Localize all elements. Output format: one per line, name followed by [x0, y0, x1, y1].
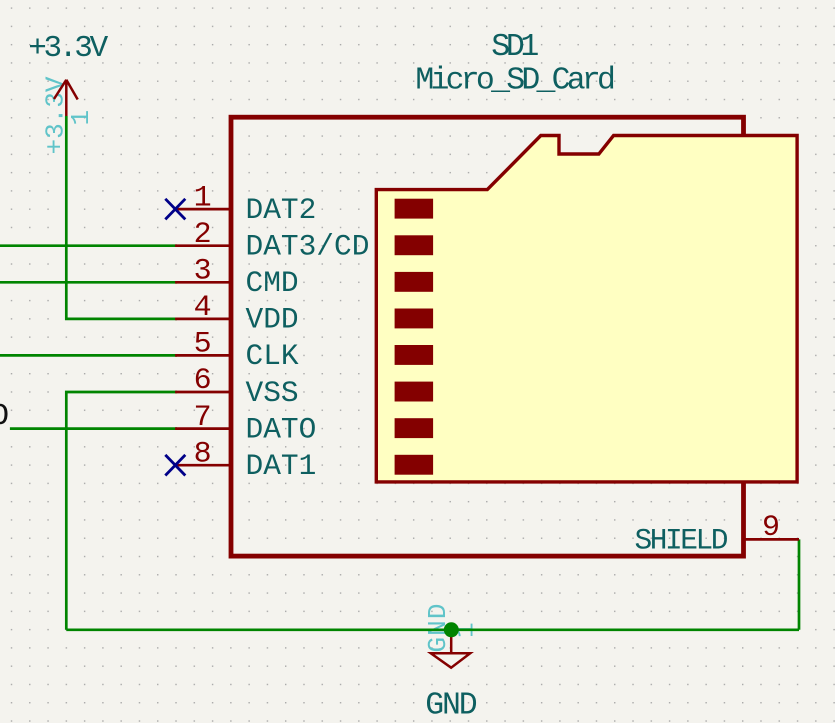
svg-text:SD1: SD1: [491, 30, 539, 65]
svg-text:8: 8: [194, 437, 212, 471]
svg-text:SHIELD: SHIELD: [635, 523, 729, 557]
svg-text:DATO: DATO: [246, 412, 317, 446]
svg-text:1: 1: [66, 110, 96, 126]
svg-text:Micro_SD_Card: Micro_SD_Card: [415, 64, 616, 99]
svg-text:VSS: VSS: [246, 376, 299, 410]
svg-text:2: 2: [194, 218, 212, 252]
svg-text:3: 3: [194, 255, 212, 289]
svg-text:+3.3V: +3.3V: [28, 31, 108, 66]
svg-text:CMD: CMD: [246, 266, 299, 300]
svg-text:O: O: [0, 399, 9, 434]
svg-text:DAT3/CD: DAT3/CD: [246, 230, 370, 264]
svg-text:GND: GND: [425, 689, 478, 723]
svg-text:7: 7: [194, 401, 212, 435]
svg-text:5: 5: [194, 328, 212, 362]
svg-text:1: 1: [194, 181, 212, 215]
svg-text:DAT2: DAT2: [246, 193, 317, 227]
svg-text:VDD: VDD: [246, 303, 299, 337]
svg-text:6: 6: [194, 364, 212, 398]
svg-text:9: 9: [762, 511, 780, 545]
svg-text:CLK: CLK: [246, 339, 299, 373]
svg-text:4: 4: [194, 291, 212, 325]
svg-text:DAT1: DAT1: [246, 449, 317, 483]
